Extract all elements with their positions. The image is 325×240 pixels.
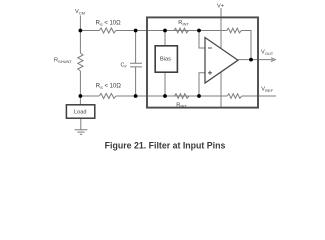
svg-text:CF: CF <box>121 63 128 69</box>
wire bottom rail left <box>80 95 99 97</box>
svg-text:Figure 21. Filter at Input Pi: Figure 21. Filter at Input Pins <box>105 140 226 150</box>
wire noninverting-input branch <box>199 73 205 96</box>
wire Bias bottom lead <box>164 72 166 96</box>
node dot noninverting input <box>197 94 201 98</box>
ground symbol <box>75 130 88 135</box>
node dot output <box>249 58 253 62</box>
svg-text:RSHUNT: RSHUNT <box>54 58 72 64</box>
wire left column upper <box>79 31 81 54</box>
wire top rail mid <box>116 30 199 32</box>
Load box <box>66 105 94 118</box>
wire load box top lead <box>79 96 81 105</box>
wire load box bottom lead <box>80 118 82 129</box>
svg-text:V+: V+ <box>217 3 224 9</box>
svg-text:Load: Load <box>74 109 86 115</box>
resistor R_SHUNT <box>78 53 83 71</box>
wire top rail left <box>80 30 99 32</box>
wire plus node to Vref resistor <box>199 95 227 97</box>
wire feedback left segment <box>199 30 227 32</box>
svg-text:RS < 10Ω: RS < 10Ω <box>96 83 122 89</box>
svg-text:Bias: Bias <box>160 56 171 62</box>
node dot bottom-left junction <box>79 94 83 98</box>
resistor R_INT top <box>174 28 189 33</box>
svg-text:RINT: RINT <box>178 20 189 26</box>
wire left column lower <box>79 71 81 96</box>
node dot CF top <box>134 29 138 33</box>
capacitor C_F <box>130 63 142 67</box>
wire inverting-input branch <box>199 31 205 49</box>
svg-text:RINT: RINT <box>176 102 187 108</box>
svg-text:VREF: VREF <box>261 86 273 92</box>
wire C_F top lead <box>135 31 137 64</box>
resistor R_INT bottom <box>174 94 189 99</box>
wire bottom rail mid <box>116 95 199 97</box>
wire output to VOUT <box>238 59 273 61</box>
node dot VCM <box>79 29 83 33</box>
wire V_CM stub <box>79 16 81 31</box>
node dot inverting input <box>197 29 201 33</box>
wire VREF out <box>242 95 276 97</box>
wire C_F bottom lead <box>135 67 137 96</box>
node dot Bias top <box>163 29 167 33</box>
Bias box <box>155 46 177 72</box>
node dot Bias bottom <box>163 94 167 98</box>
resistor RS2 (bottom, RS < 10 ohm) <box>99 94 116 99</box>
resistor R feedback <box>227 28 242 33</box>
op-amp U1 triangle <box>205 38 238 84</box>
resistor RS1 (top, RS < 10 ohm) <box>99 28 116 33</box>
op-amp plus sign <box>208 71 212 75</box>
resistor R_INT to VREF <box>227 94 242 99</box>
svg-text:RS < 10Ω: RS < 10Ω <box>96 21 122 27</box>
wire Bias top lead <box>164 31 166 46</box>
IC package box <box>147 17 258 107</box>
wire V+ supply <box>220 8 222 49</box>
wire op-amp ground pin <box>220 72 222 108</box>
arrowhead VOUT <box>271 58 275 62</box>
wire feedback right segment down to output <box>241 31 251 60</box>
svg-text:VCM: VCM <box>75 9 85 15</box>
svg-text:VOUT: VOUT <box>261 50 274 56</box>
node dot CF bottom <box>134 94 138 98</box>
op-amp minus sign <box>208 47 212 49</box>
